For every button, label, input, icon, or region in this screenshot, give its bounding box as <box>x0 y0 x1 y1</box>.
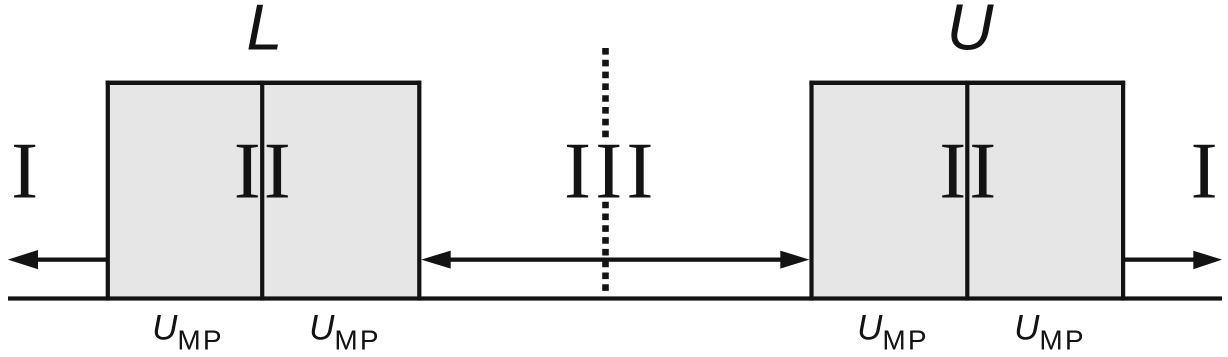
double arrow right head <box>780 251 809 269</box>
double arrow shaft <box>445 258 785 262</box>
left barrier box fill <box>106 80 422 298</box>
left box divider <box>260 81 264 301</box>
right box right border <box>1121 81 1125 301</box>
right arrow head <box>1193 251 1222 270</box>
svg-text:I: I <box>11 126 38 216</box>
svg-text:I: I <box>1191 126 1218 216</box>
right box top border <box>809 81 1125 85</box>
svg-text:UMP: UMP <box>857 308 929 355</box>
left box right border <box>417 81 421 301</box>
left arrow shaft <box>30 258 109 262</box>
double arrow left head <box>421 251 451 269</box>
baseline <box>8 296 1222 300</box>
svg-text:III: III <box>564 126 658 216</box>
svg-text:UMP: UMP <box>152 308 224 355</box>
dotted divider line lower segment <box>602 202 609 291</box>
right arrow shaft <box>1121 258 1200 262</box>
dotted divider line upper segment <box>602 48 609 137</box>
right box divider <box>965 81 969 301</box>
left box top border <box>106 81 422 85</box>
left arrow head <box>8 250 38 269</box>
svg-text:U: U <box>947 0 995 64</box>
svg-text:UMP: UMP <box>1014 308 1086 355</box>
right box left border <box>809 81 813 301</box>
svg-text:UMP: UMP <box>309 308 381 355</box>
svg-text:II: II <box>234 126 294 216</box>
left box left border <box>106 81 110 301</box>
svg-text:L: L <box>246 0 282 64</box>
svg-text:II: II <box>939 126 999 216</box>
right barrier box fill <box>809 80 1125 298</box>
